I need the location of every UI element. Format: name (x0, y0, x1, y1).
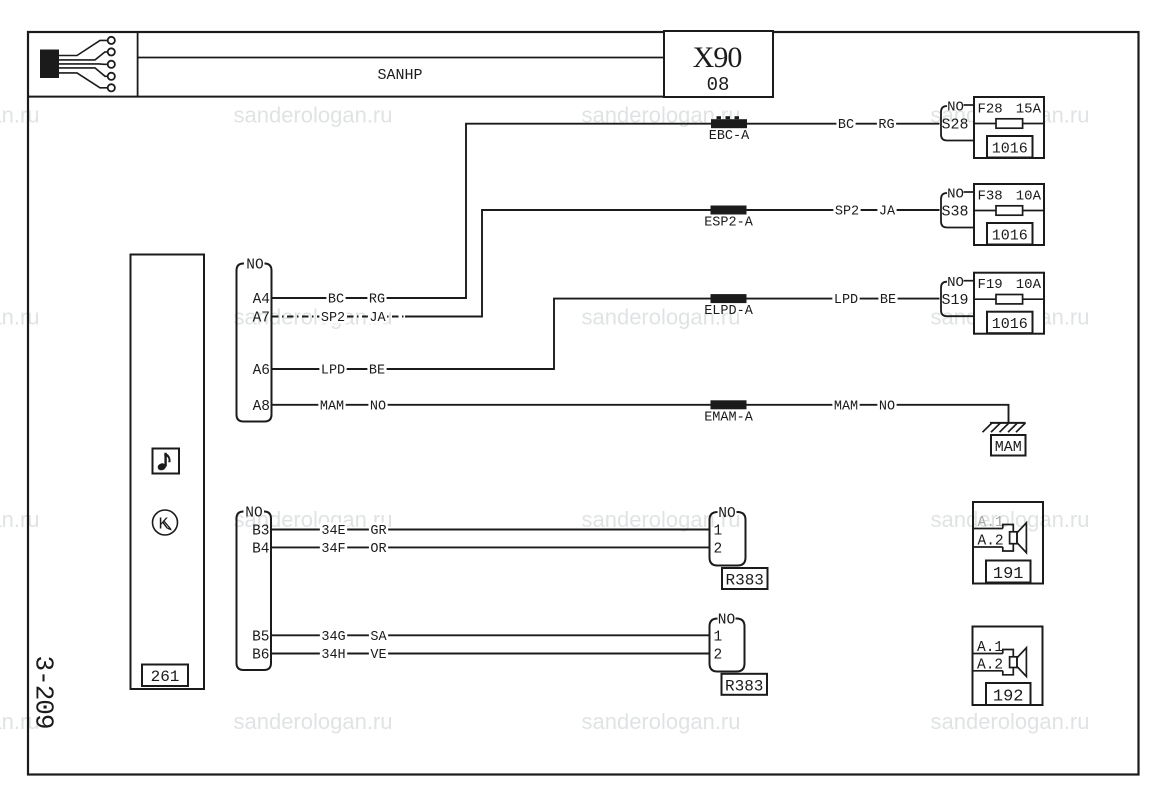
svg-text:A6: A6 (253, 363, 270, 379)
svg-text:NO: NO (718, 613, 735, 629)
svg-text:MAM: MAM (320, 399, 344, 414)
svg-text:1: 1 (714, 524, 723, 540)
svg-text:A4: A4 (253, 292, 270, 308)
svg-text:261: 261 (151, 668, 180, 686)
svg-text:BE: BE (369, 364, 385, 379)
svg-text:ELPD-A: ELPD-A (704, 304, 754, 319)
svg-text:2: 2 (714, 541, 723, 557)
svg-text:RG: RG (369, 293, 385, 308)
svg-text:15A: 15A (1016, 102, 1042, 118)
svg-text:B3: B3 (252, 524, 269, 540)
svg-text:MAM: MAM (834, 399, 858, 414)
svg-text:34G: 34G (321, 630, 345, 645)
svg-text:10A: 10A (1016, 189, 1042, 205)
svg-text:1016: 1016 (992, 141, 1028, 158)
svg-text:SANHP: SANHP (377, 67, 422, 84)
svg-text:NO: NO (718, 506, 735, 522)
svg-text:1: 1 (714, 629, 723, 645)
svg-text:34E: 34E (321, 524, 345, 539)
svg-text:NO: NO (947, 187, 964, 203)
svg-text:sanderologan.ru: sanderologan.ru (0, 103, 40, 128)
svg-text:2: 2 (714, 648, 723, 664)
svg-text:sanderologan.ru: sanderologan.ru (581, 709, 740, 734)
svg-text:F28: F28 (978, 102, 1003, 118)
svg-text:NO: NO (246, 258, 263, 274)
svg-text:MAM: MAM (995, 439, 1022, 456)
svg-text:08: 08 (707, 74, 730, 96)
svg-text:A7: A7 (253, 311, 270, 327)
svg-text:B4: B4 (252, 541, 269, 557)
svg-text:SP2: SP2 (321, 311, 345, 326)
svg-text:S19: S19 (941, 292, 968, 309)
svg-text:1016: 1016 (992, 228, 1028, 245)
svg-text:GR: GR (370, 524, 386, 539)
svg-text:sanderologan.ru: sanderologan.ru (930, 709, 1089, 734)
svg-text:NO: NO (245, 506, 262, 522)
svg-text:ESP2-A: ESP2-A (704, 216, 754, 231)
svg-text:34H: 34H (321, 648, 345, 663)
svg-text:1016: 1016 (992, 316, 1028, 333)
svg-text:sanderologan.ru: sanderologan.ru (233, 709, 392, 734)
svg-text:sanderologan.ru: sanderologan.ru (930, 507, 1089, 532)
svg-text:S28: S28 (941, 117, 968, 134)
svg-text:EMAM-A: EMAM-A (704, 410, 754, 425)
svg-text:B5: B5 (252, 629, 269, 645)
svg-text:LPD: LPD (321, 364, 345, 379)
svg-text:EBC-A: EBC-A (709, 129, 750, 144)
svg-text:OR: OR (370, 542, 386, 557)
svg-text:BC: BC (838, 118, 854, 133)
svg-text:B6: B6 (252, 648, 269, 664)
svg-text:A8: A8 (253, 399, 270, 415)
svg-text:sanderologan.ru: sanderologan.ru (233, 103, 392, 128)
svg-text:LPD: LPD (834, 293, 858, 308)
svg-text:S38: S38 (941, 204, 968, 221)
svg-text:SP2: SP2 (835, 205, 859, 220)
svg-text:F19: F19 (978, 277, 1003, 293)
svg-text:BC: BC (328, 293, 344, 308)
svg-text:NO: NO (879, 399, 895, 414)
svg-text:191: 191 (993, 565, 1024, 584)
svg-text:NO: NO (947, 275, 964, 291)
svg-text:R383: R383 (725, 572, 763, 590)
svg-text:34F: 34F (321, 542, 345, 557)
svg-text:F38: F38 (978, 189, 1003, 205)
svg-text:NO: NO (370, 399, 386, 414)
svg-text:X90: X90 (693, 41, 742, 74)
svg-text:sanderologan.ru: sanderologan.ru (0, 305, 40, 330)
svg-text:JA: JA (369, 311, 386, 326)
svg-text:VE: VE (370, 648, 386, 663)
svg-text:SA: SA (370, 630, 387, 645)
svg-text:sanderologan.ru: sanderologan.ru (0, 507, 40, 532)
svg-text:RG: RG (878, 118, 894, 133)
svg-text:10A: 10A (1016, 277, 1042, 293)
svg-text:192: 192 (993, 688, 1024, 707)
svg-text:JA: JA (879, 205, 896, 220)
svg-text:NO: NO (947, 100, 964, 116)
svg-text:3-209: 3-209 (29, 655, 59, 728)
svg-text:BE: BE (880, 293, 896, 308)
svg-text:R383: R383 (725, 677, 763, 695)
